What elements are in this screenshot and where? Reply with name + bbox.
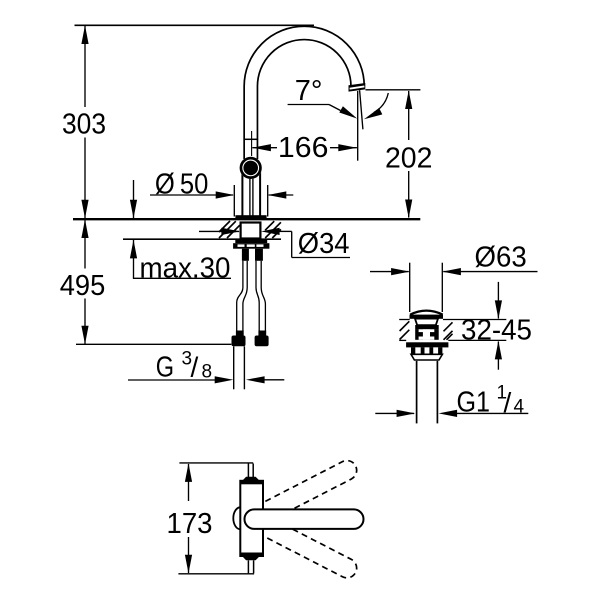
dim text 173 <box>167 508 213 540</box>
dim Ø63 extension lines <box>410 263 443 312</box>
popup deck bottom line <box>399 339 506 341</box>
bottom stud (top view) <box>242 556 260 573</box>
svg-text:7°: 7° <box>295 75 323 107</box>
base plate <box>235 215 266 220</box>
angle 7deg leader <box>288 105 358 119</box>
faucet body (top view) <box>240 481 263 556</box>
dim text 202 <box>385 142 433 174</box>
lever pivot bump (top view) <box>233 507 240 529</box>
mounting nut <box>233 239 269 248</box>
svg-text:Ø63: Ø63 <box>475 242 527 274</box>
hose tail below connector <box>234 346 245 389</box>
popup tailpipe <box>417 361 438 424</box>
spout outlet axis extension line <box>357 91 359 161</box>
dim Ø34 arrows and leader <box>199 228 350 258</box>
popup hatch right <box>444 322 453 340</box>
dim text 166 <box>278 132 329 164</box>
top stud (top view) <box>242 464 260 482</box>
swivel handle upper position (dashed) <box>248 457 360 528</box>
dim G1 1/4 label <box>457 383 525 419</box>
popup locknut flange <box>406 342 448 347</box>
mounting shank through deck <box>241 223 261 239</box>
extension line hose ends (bottom of 495) <box>76 343 231 345</box>
dim 32-45 top arrow <box>495 282 502 319</box>
hatch left of faucet shank <box>219 221 240 238</box>
dim text 303 <box>62 109 106 141</box>
svg-text:G: G <box>156 352 174 384</box>
hose lower sections <box>237 303 266 332</box>
popup clamp block <box>415 325 439 340</box>
svg-text:4: 4 <box>514 397 525 418</box>
top view extension line lower <box>178 573 254 575</box>
dim text Ø63 <box>475 242 527 274</box>
svg-text:Ø34: Ø34 <box>298 228 350 260</box>
dim Ø50 arrows <box>150 191 293 198</box>
extension line top of spout <box>75 24 315 26</box>
popup castellated nut <box>411 347 442 354</box>
dim 202 lower segment <box>405 171 412 218</box>
svg-text:495: 495 <box>60 270 106 302</box>
flexible hoses upper straight section <box>243 261 261 288</box>
dim Ø63 arrows <box>370 268 538 275</box>
outlet tilted axis (7 deg) <box>360 90 363 129</box>
dim 173 lower segment <box>185 537 192 573</box>
popup taper <box>411 354 442 360</box>
svg-text:303: 303 <box>62 109 106 141</box>
text 7deg <box>295 75 323 107</box>
dim 303 line upper segment <box>81 25 88 107</box>
spout joint tick <box>244 138 259 140</box>
svg-text:max.30: max.30 <box>140 252 231 284</box>
dim 495 line upper segment <box>81 219 88 268</box>
spout tube (C-shape) <box>251 33 358 160</box>
dim 173 upper segment <box>185 463 192 501</box>
handle lever (top view, solid) <box>245 509 364 529</box>
hose S-curves <box>237 288 266 305</box>
spout outlet / aerator <box>349 83 366 92</box>
top view extension line upper <box>179 462 253 464</box>
svg-text:173: 173 <box>167 508 213 540</box>
dim text 495 <box>60 270 106 302</box>
hose connector G3/8 left <box>232 331 246 347</box>
deck / countertop line <box>73 218 420 220</box>
dim max.30 bottom arrow and leader <box>130 240 231 278</box>
popup deck top line <box>399 319 506 321</box>
dim G1 1/4 arrows and underline <box>375 410 528 417</box>
dim text max.30 <box>140 252 231 284</box>
dim text Ø50 <box>155 168 209 200</box>
dim 303 line lower segment <box>81 138 88 219</box>
svg-text:Ø 50: Ø 50 <box>155 168 209 200</box>
angle 7deg arc with arrow <box>364 93 388 119</box>
dim 166 <box>252 144 357 151</box>
dim G3/8 label <box>156 349 212 384</box>
popup hatch left <box>400 321 410 339</box>
faucet centre axis extension (for 166) <box>251 131 253 156</box>
extension line outlet height (202) <box>366 89 421 91</box>
svg-text:32-45: 32-45 <box>461 315 532 347</box>
faucet body column <box>242 170 260 216</box>
dim 495 line lower segment <box>81 299 88 345</box>
deck bottom line (max.30 thickness) <box>123 238 281 240</box>
dim text 32-45 <box>461 315 532 347</box>
dim G3/8 underline and arrows <box>128 376 284 383</box>
svg-text:/: / <box>191 352 199 383</box>
dim max.30 top arrow <box>130 180 137 218</box>
popup plug dome <box>410 311 444 319</box>
lever pivot circle <box>240 157 262 179</box>
hatch right of faucet shank <box>265 221 281 238</box>
svg-text:202: 202 <box>385 142 433 174</box>
hose connector G3/8 right <box>255 331 269 347</box>
dim 32-45 bottom arrow <box>495 341 502 370</box>
dim Ø50 extension lines <box>234 185 267 217</box>
dim text Ø34 <box>298 228 350 260</box>
dim 202 upper segment <box>405 90 412 140</box>
svg-text:166: 166 <box>278 132 329 164</box>
hose nipples <box>242 249 263 261</box>
popup neck <box>415 319 438 326</box>
swivel handle lower position (dashed) <box>248 511 360 582</box>
